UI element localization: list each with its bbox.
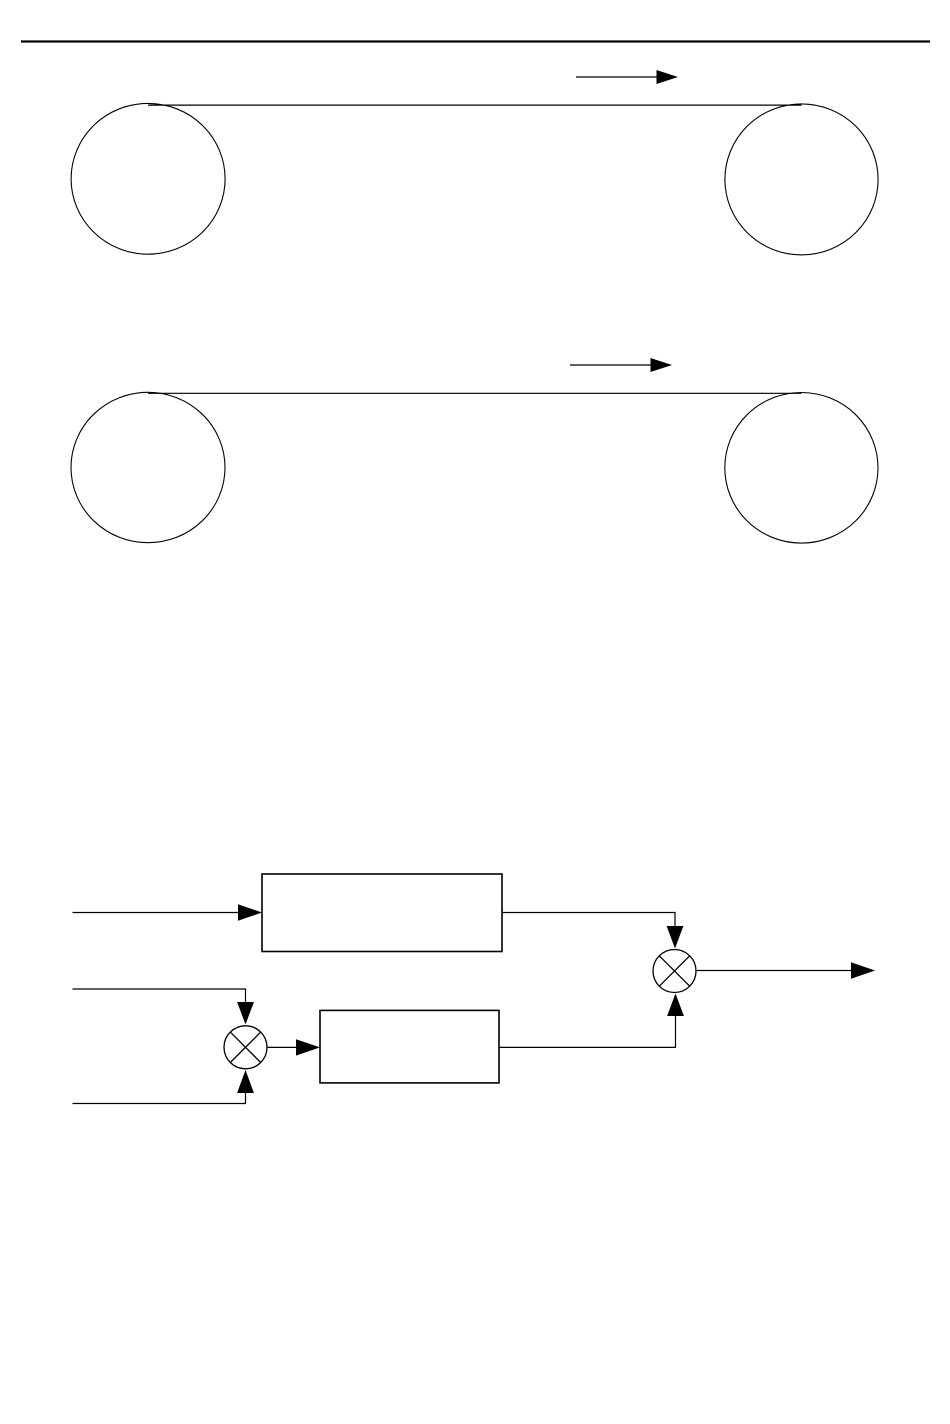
- header rule: [21, 40, 930, 42]
- right pulley (figure 1): [725, 104, 878, 255]
- arrowhead down into multiplier 2: [237, 1002, 254, 1025]
- arrowhead into block 2: [296, 1039, 320, 1055]
- block 2: [320, 1010, 499, 1083]
- belt line (figure 1): [148, 104, 802, 106]
- multiplier 2: [224, 1026, 267, 1069]
- multiplier 1: [653, 950, 696, 993]
- left pulley (figure 1): [71, 103, 225, 254]
- direction arrow (figure 2): [570, 358, 672, 372]
- arrowhead up into multiplier 2: [237, 1070, 254, 1093]
- input wire to block 1: [73, 912, 241, 914]
- arrowhead down into multiplier 1: [667, 926, 684, 949]
- left pulley (figure 2): [71, 392, 225, 542]
- block 1: [262, 874, 502, 952]
- arrowhead into block 1: [238, 904, 262, 920]
- input wire 2: [73, 989, 246, 1004]
- wire block2 to multiplier 1: [499, 1014, 676, 1047]
- arrowhead up into multiplier 1: [667, 994, 684, 1017]
- wire multiplier 2 to block 2: [267, 1046, 298, 1048]
- belt line (figure 2): [148, 392, 801, 394]
- direction arrow (figure 1): [576, 70, 678, 84]
- output arrowhead: [851, 962, 875, 978]
- wire block1 to multiplier 1: [502, 913, 675, 929]
- output wire: [696, 970, 853, 972]
- right pulley (figure 2): [725, 393, 878, 544]
- input wire 3: [73, 1091, 246, 1104]
